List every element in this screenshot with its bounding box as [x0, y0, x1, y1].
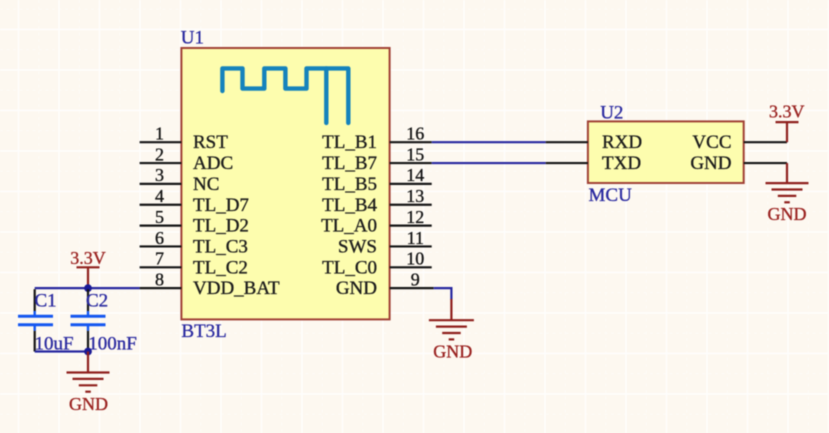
value 10uF [35, 334, 74, 355]
pin 16 TL_B1 [322, 124, 432, 154]
junction node GND net [84, 348, 92, 356]
designator U1 [181, 28, 204, 49]
label BT3L [181, 321, 226, 342]
designator U2 [600, 103, 623, 124]
pin 2 ADC [140, 144, 234, 174]
svg-text:GND: GND [69, 394, 108, 414]
svg-text:100nF: 100nF [88, 334, 137, 355]
ground symbol (U2 GND) [766, 163, 809, 202]
svg-text:16: 16 [406, 124, 424, 144]
svg-text:6: 6 [155, 228, 164, 248]
pin 3 NC [140, 165, 220, 195]
svg-text:GND: GND [336, 278, 377, 299]
svg-text:TL_B7: TL_B7 [322, 153, 377, 174]
wire net TL_B7 (U1 pin15 to U2 TXD) [432, 162, 546, 164]
svg-text:RST: RST [193, 132, 228, 153]
pin 13 TL_B4 [322, 186, 432, 216]
svg-text:3.3V: 3.3V [70, 248, 106, 268]
svg-text:14: 14 [406, 165, 424, 185]
pin 9 GND [336, 269, 434, 299]
designator C2 [86, 290, 108, 311]
svg-text:MCU: MCU [589, 185, 633, 206]
wire GND net from U1 pin 9 [434, 288, 452, 299]
svg-text:NC: NC [193, 174, 219, 195]
IC U2 body [588, 121, 744, 183]
svg-text:7: 7 [155, 249, 164, 269]
svg-text:TL_D2: TL_D2 [193, 216, 249, 237]
value 100nF [88, 334, 137, 355]
junction node VDD net [84, 284, 92, 292]
svg-text:TL_C2: TL_C2 [193, 257, 248, 278]
label GND (U2) [768, 204, 807, 224]
label GND (U1 pin 9) [433, 341, 472, 361]
wire VDD net horizontal to U1 pin 8 [35, 287, 140, 289]
svg-text:VCC: VCC [692, 132, 731, 153]
U2 pin RXD [546, 132, 642, 153]
svg-text:C2: C2 [86, 290, 108, 311]
svg-text:2: 2 [155, 144, 164, 164]
svg-text:10: 10 [406, 249, 424, 269]
svg-text:12: 12 [406, 207, 424, 227]
svg-text:4: 4 [155, 186, 164, 206]
svg-text:U2: U2 [600, 103, 623, 124]
designator C1 [35, 290, 57, 311]
svg-text:TL_D7: TL_D7 [193, 195, 249, 216]
pin 5 TL_D2 [140, 207, 249, 237]
ground symbol (U1 pin 9) [429, 299, 474, 339]
svg-text:TL_B5: TL_B5 [322, 174, 377, 195]
pin 8 VDD_BAT [140, 269, 280, 299]
svg-text:5: 5 [155, 207, 164, 227]
pin 1 RST [140, 124, 229, 154]
U1 logo graphic [222, 68, 348, 123]
svg-text:SWS: SWS [338, 236, 377, 257]
pin 11 SWS [338, 228, 432, 258]
svg-text:11: 11 [407, 228, 424, 248]
pin 7 TL_C2 [140, 249, 248, 279]
svg-text:C1: C1 [35, 290, 57, 311]
svg-text:BT3L: BT3L [181, 321, 226, 342]
svg-text:GND: GND [433, 341, 472, 361]
power 3.3V (right, at U2 VCC) [776, 122, 799, 142]
pin 12 TL_A0 [321, 207, 432, 237]
svg-text:TL_B1: TL_B1 [322, 132, 377, 153]
svg-text:3.3V: 3.3V [769, 101, 805, 121]
capacitor C1 [18, 289, 53, 351]
svg-text:TL_B4: TL_B4 [322, 195, 377, 216]
svg-text:TL_A0: TL_A0 [321, 216, 377, 237]
pin 4 TL_D7 [140, 186, 249, 216]
U2 pin TXD [546, 153, 641, 174]
pin 14 TL_B5 [322, 165, 432, 195]
pin 6 TL_C3 [140, 228, 248, 258]
svg-text:RXD: RXD [602, 132, 642, 153]
label 3.3V (left) [70, 248, 106, 268]
svg-text:TL_C0: TL_C0 [322, 257, 377, 278]
svg-text:VDD_BAT: VDD_BAT [193, 278, 280, 299]
svg-text:3: 3 [155, 165, 164, 185]
wire GND net below capacitors [35, 350, 88, 352]
label GND (capacitors) [69, 394, 108, 414]
svg-text:8: 8 [155, 269, 164, 289]
pin 10 TL_C0 [322, 249, 432, 279]
label MCU [589, 185, 633, 206]
svg-text:TXD: TXD [602, 153, 641, 174]
svg-text:U1: U1 [181, 28, 204, 49]
power 3.3V (left, capacitors) [77, 267, 100, 288]
svg-text:13: 13 [406, 186, 424, 206]
svg-text:9: 9 [411, 269, 420, 289]
ground symbol (capacitors) [67, 352, 110, 392]
svg-text:GND: GND [768, 204, 807, 224]
svg-text:1: 1 [155, 124, 164, 144]
capacitor C2 [71, 289, 106, 351]
svg-text:ADC: ADC [193, 153, 233, 174]
label 3.3V (right) [769, 101, 805, 121]
wire net TL_B1 (U1 pin16 to U2 RXD) [432, 141, 546, 143]
U2 pin VCC [692, 132, 787, 153]
svg-text:TL_C3: TL_C3 [193, 236, 248, 257]
svg-text:15: 15 [406, 144, 424, 164]
U2 pin GND [690, 153, 787, 174]
svg-text:GND: GND [690, 153, 731, 174]
IC U1 body [181, 48, 389, 319]
pin 15 TL_B7 [322, 144, 432, 174]
